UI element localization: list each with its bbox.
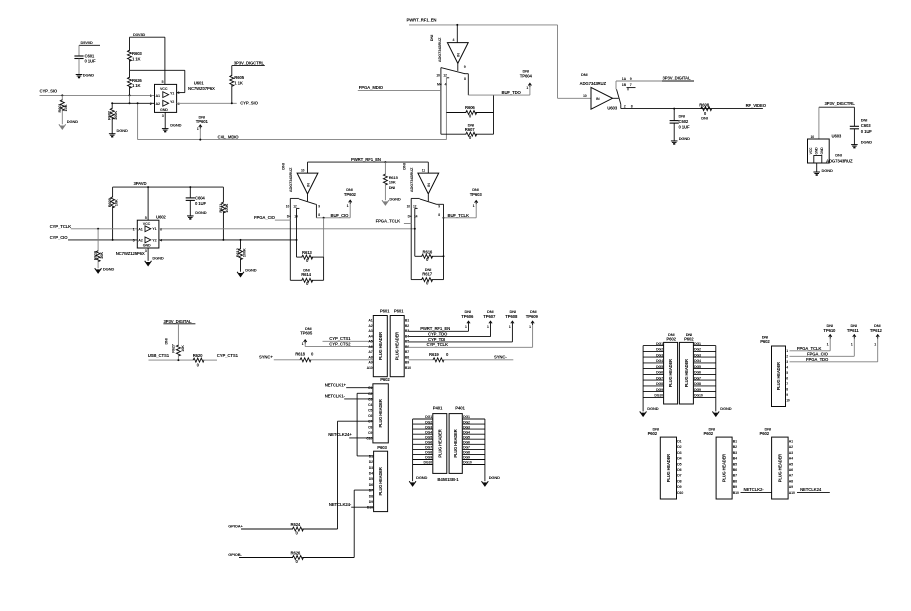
svg-text:A1: A1 bbox=[368, 319, 372, 323]
svg-text:4: 4 bbox=[453, 38, 455, 42]
svg-text:A10: A10 bbox=[789, 491, 795, 495]
svg-text:TP612: TP612 bbox=[870, 328, 883, 333]
svg-text:2: 2 bbox=[786, 355, 788, 359]
wire Y1 pullup loop bbox=[130, 70, 185, 92]
svg-text:D3: D3 bbox=[677, 451, 681, 455]
svg-text:B1: B1 bbox=[405, 319, 409, 323]
svg-text:D1: D1 bbox=[369, 454, 373, 458]
svg-text:DGND: DGND bbox=[647, 406, 658, 411]
svg-text:DGND: DGND bbox=[822, 168, 833, 173]
svg-text:0 1UF: 0 1UF bbox=[85, 59, 96, 64]
resistor R613 bbox=[297, 250, 324, 263]
node FPGA_MDIO bbox=[359, 85, 384, 90]
svg-text:DG5: DG5 bbox=[694, 365, 701, 369]
power rail D3V3D (R603) bbox=[130, 32, 165, 37]
wire FPGA_CIO (P602) bbox=[790, 351, 855, 356]
wire FPGA_TCLK bbox=[404, 223, 411, 225]
svg-text:VCC: VCC bbox=[809, 147, 813, 154]
test point TP607 bbox=[483, 309, 496, 336]
svg-text:0: 0 bbox=[469, 135, 472, 140]
wire switch pin A (TDO) bbox=[436, 68, 442, 135]
svg-text:10: 10 bbox=[301, 169, 305, 173]
svg-text:DNI: DNI bbox=[835, 153, 841, 158]
svg-text:B1: B1 bbox=[733, 439, 737, 443]
svg-text:M4: M4 bbox=[437, 82, 442, 86]
svg-text:1: 1 bbox=[529, 325, 531, 329]
svg-text:B8: B8 bbox=[405, 355, 409, 359]
wire CYP_TDO (P601) bbox=[409, 332, 491, 337]
svg-text:R627: R627 bbox=[172, 344, 176, 353]
resistor R607 bbox=[441, 122, 494, 140]
svg-text:DG6: DG6 bbox=[463, 441, 470, 445]
svg-text:DG6: DG6 bbox=[694, 371, 701, 375]
svg-text:8: 8 bbox=[318, 213, 320, 217]
svg-text:ADG7343RUZ: ADG7343RUZ bbox=[580, 81, 607, 86]
svg-text:8: 8 bbox=[786, 388, 788, 392]
ground DGND (U603 power) bbox=[813, 168, 833, 175]
connector P602 (bottom 3) bbox=[760, 426, 789, 499]
svg-text:DG8: DG8 bbox=[694, 382, 701, 386]
svg-text:FPGA_TCLK: FPGA_TCLK bbox=[376, 218, 401, 223]
wire ctrl drop (TDO) bbox=[453, 25, 458, 43]
svg-text:C1: C1 bbox=[368, 386, 372, 390]
ground DGND (R610) bbox=[95, 266, 115, 273]
svg-text:10: 10 bbox=[811, 135, 815, 139]
svg-text:P602: P602 bbox=[760, 431, 770, 436]
svg-text:D1: D1 bbox=[677, 439, 681, 443]
svg-text:DGND: DGND bbox=[152, 256, 163, 261]
test point TP601 bbox=[196, 115, 209, 140]
node 3P3V_DIGITAL (R627) bbox=[163, 319, 195, 324]
svg-text:D4: D4 bbox=[408, 214, 412, 218]
svg-text:D7: D7 bbox=[677, 474, 681, 478]
P602 pair right wires bbox=[693, 346, 715, 398]
svg-text:2: 2 bbox=[624, 105, 626, 109]
svg-text:DNI: DNI bbox=[165, 338, 169, 344]
wire C2 to D1 jumper bbox=[357, 393, 374, 456]
wire NETCLK1- bbox=[344, 398, 373, 400]
resistor R626 bbox=[128, 70, 143, 95]
svg-text:DNI: DNI bbox=[401, 163, 406, 169]
svg-text:PLUG HEADER: PLUG HEADER bbox=[777, 454, 782, 482]
svg-text:P602: P602 bbox=[684, 337, 694, 342]
P602 bottom3 pin labels bbox=[789, 439, 795, 495]
wire NETCLK1+ bbox=[346, 387, 373, 389]
svg-text:4: 4 bbox=[445, 82, 447, 86]
svg-text:A5: A5 bbox=[789, 462, 793, 466]
wire C7 to R624 bbox=[338, 421, 373, 529]
wire SYNC- (R619) bbox=[409, 352, 514, 362]
connector P602 pair left bbox=[664, 332, 678, 404]
wire NETCLK24+ bbox=[349, 437, 373, 439]
svg-text:4: 4 bbox=[160, 239, 163, 243]
P602 pair left labels bbox=[654, 342, 663, 398]
svg-text:D2: D2 bbox=[369, 460, 373, 464]
ground DGND (R612) bbox=[237, 267, 257, 276]
svg-text:1: 1 bbox=[133, 227, 135, 231]
svg-text:R614: R614 bbox=[301, 272, 311, 277]
svg-text:10K: 10K bbox=[181, 345, 185, 352]
svg-text:5: 5 bbox=[145, 216, 147, 220]
svg-text:TP611: TP611 bbox=[847, 328, 859, 333]
svg-text:3P3V_DIGITAL: 3P3V_DIGITAL bbox=[164, 319, 192, 324]
svg-text:DGND: DGND bbox=[195, 210, 206, 215]
wire ground bus right (P602 pair) bbox=[715, 346, 717, 412]
ground DGND (R601) bbox=[59, 119, 78, 129]
svg-text:C604: C604 bbox=[195, 196, 205, 201]
svg-text:C602: C602 bbox=[679, 119, 689, 124]
P602 pin labels C bbox=[366, 386, 372, 440]
svg-text:RF_VIDEO: RF_VIDEO bbox=[746, 103, 767, 108]
wire BUF_TCLK bbox=[444, 213, 477, 218]
svg-text:1: 1 bbox=[509, 325, 511, 329]
wire A2 bbox=[111, 102, 154, 104]
svg-text:DG2: DG2 bbox=[463, 420, 470, 424]
svg-text:VCC: VCC bbox=[160, 87, 168, 91]
wire SYNC+ bbox=[274, 352, 374, 362]
svg-text:DG3: DG3 bbox=[463, 425, 470, 429]
svg-text:D9: D9 bbox=[369, 500, 373, 504]
power rail 3PAVD bbox=[113, 181, 224, 188]
wire CYP_SIO out bbox=[177, 102, 237, 104]
svg-text:A7: A7 bbox=[368, 350, 372, 354]
resistor R617 bbox=[411, 267, 443, 286]
svg-text:4: 4 bbox=[786, 366, 788, 370]
resistor R614 bbox=[290, 257, 323, 286]
svg-text:A3: A3 bbox=[368, 329, 372, 333]
ground DGND (U602) bbox=[145, 256, 164, 266]
resistor R608 bbox=[699, 102, 711, 120]
svg-text:PLUG HEADER: PLUG HEADER bbox=[722, 454, 727, 482]
svg-text:0: 0 bbox=[197, 362, 200, 367]
node 3P3V_DIGCTRL (U603) bbox=[819, 101, 855, 107]
test point TP606 bbox=[461, 309, 474, 331]
test point TP609 bbox=[526, 309, 539, 347]
svg-text:NC7WZ125P6X: NC7WZ125P6X bbox=[116, 251, 145, 256]
svg-text:DG2: DG2 bbox=[656, 348, 663, 352]
svg-text:ADG7343RUZ: ADG7343RUZ bbox=[288, 167, 293, 192]
svg-text:R613: R613 bbox=[302, 250, 312, 255]
wire U601 VCC pin 5 bbox=[162, 37, 165, 84]
wire switch pin B (TCLK) bbox=[413, 204, 418, 256]
wire PWRT_RF1_EN rail bbox=[308, 161, 429, 163]
node USB_CTS1 bbox=[148, 353, 170, 358]
svg-text:TP606: TP606 bbox=[461, 314, 474, 319]
svg-text:CYP_TCLK: CYP_TCLK bbox=[427, 342, 450, 347]
svg-text:DNI: DNI bbox=[389, 185, 395, 190]
node CYP_TCLK bbox=[50, 224, 73, 229]
svg-text:PLUG HEADER: PLUG HEADER bbox=[776, 362, 781, 390]
svg-text:GPIOB-: GPIOB- bbox=[228, 552, 242, 557]
svg-text:DGND: DGND bbox=[103, 266, 114, 271]
svg-text:D4: D4 bbox=[677, 457, 681, 461]
wire switch contact (CIO) bbox=[316, 204, 321, 218]
svg-text:FPGA_TDO: FPGA_TDO bbox=[806, 357, 829, 362]
svg-text:D10: D10 bbox=[677, 491, 683, 495]
svg-text:6: 6 bbox=[160, 227, 162, 231]
svg-text:8: 8 bbox=[464, 77, 466, 81]
svg-text:TP604: TP604 bbox=[520, 73, 533, 78]
svg-text:CYP_SIO: CYP_SIO bbox=[240, 101, 258, 106]
wire R606-R607 join bbox=[493, 95, 495, 134]
svg-text:C603: C603 bbox=[861, 123, 871, 128]
svg-text:D4: D4 bbox=[369, 472, 373, 476]
test point TP602 bbox=[344, 187, 357, 218]
wire switch pin B (TDO) bbox=[443, 73, 449, 139]
svg-text:GND: GND bbox=[815, 147, 819, 155]
svg-text:0: 0 bbox=[311, 352, 314, 357]
svg-text:10: 10 bbox=[786, 399, 790, 403]
svg-text:CYP_CTS1: CYP_CTS1 bbox=[217, 353, 239, 358]
svg-text:A2: A2 bbox=[156, 102, 161, 106]
node SYNC+ bbox=[259, 355, 273, 360]
svg-text:1 1K: 1 1K bbox=[132, 83, 142, 88]
svg-text:PLUG HEADER: PLUG HEADER bbox=[378, 467, 383, 495]
node NETCLK1+ bbox=[325, 383, 347, 388]
svg-text:DG9: DG9 bbox=[425, 456, 432, 460]
ground DGND (C603) bbox=[851, 140, 872, 148]
svg-text:C8: C8 bbox=[368, 425, 372, 429]
svg-text:DG7: DG7 bbox=[425, 446, 432, 450]
op-amp control buffer (TDO) bbox=[447, 43, 468, 64]
wire NETCLK2- bbox=[741, 487, 772, 492]
wire CYP_CTS1 bbox=[323, 336, 374, 341]
svg-text:P603: P603 bbox=[377, 445, 387, 450]
svg-text:C3: C3 bbox=[368, 397, 372, 401]
wire CYP_CIO out bbox=[159, 239, 298, 241]
svg-text:DGND: DGND bbox=[416, 475, 427, 480]
svg-text:A9: A9 bbox=[789, 485, 793, 489]
svg-text:VCC: VCC bbox=[143, 222, 151, 226]
svg-text:DGND: DGND bbox=[67, 119, 78, 124]
svg-text:A1: A1 bbox=[156, 94, 161, 98]
svg-text:DG1: DG1 bbox=[656, 342, 663, 346]
svg-text:SYNC+: SYNC+ bbox=[259, 355, 273, 360]
P602 bottom2 pin labels bbox=[733, 439, 739, 495]
svg-text:P601: P601 bbox=[394, 308, 404, 313]
svg-text:B9: B9 bbox=[733, 485, 737, 489]
wire USB_CTS1 bbox=[149, 359, 194, 361]
svg-text:100K: 100K bbox=[113, 111, 118, 120]
svg-text:Y1: Y1 bbox=[170, 91, 174, 95]
svg-text:C7: C7 bbox=[368, 420, 372, 424]
P602 bottom1 pin labels bbox=[677, 439, 683, 495]
svg-text:9: 9 bbox=[786, 393, 788, 397]
wire FPGA_TCLK (P602) bbox=[790, 346, 831, 351]
resistor R611 bbox=[218, 187, 229, 240]
svg-text:DG8: DG8 bbox=[425, 451, 432, 455]
resistor R606 bbox=[446, 105, 493, 119]
node CXL_MDIO bbox=[218, 134, 240, 139]
node FPGA_CIO bbox=[254, 215, 276, 220]
svg-text:P401: P401 bbox=[433, 405, 443, 410]
svg-text:DG10: DG10 bbox=[654, 394, 663, 398]
svg-text:NETCLK24-: NETCLK24- bbox=[329, 502, 352, 507]
svg-text:7: 7 bbox=[786, 382, 788, 386]
U603 power part label bbox=[826, 153, 853, 164]
svg-text:1: 1 bbox=[302, 342, 304, 346]
svg-text:8: 8 bbox=[631, 104, 633, 108]
svg-text:ADG7343RUZ: ADG7343RUZ bbox=[409, 167, 414, 192]
svg-text:2: 2 bbox=[150, 102, 152, 106]
svg-text:A2: A2 bbox=[138, 239, 143, 243]
wire U602 VCC pin bbox=[145, 187, 148, 220]
connector P601 right bbox=[390, 308, 404, 376]
svg-text:DG10: DG10 bbox=[694, 394, 703, 398]
svg-text:B4501SB-1: B4501SB-1 bbox=[437, 477, 459, 482]
svg-text:TP603: TP603 bbox=[470, 192, 483, 197]
node GPIOA+ bbox=[228, 524, 243, 529]
svg-text:P601: P601 bbox=[380, 308, 390, 313]
svg-text:R608: R608 bbox=[699, 102, 709, 107]
svg-text:GND: GND bbox=[160, 108, 168, 112]
ground DGND (P401 right) bbox=[482, 475, 501, 486]
svg-text:DGND: DGND bbox=[83, 72, 94, 77]
svg-text:1: 1 bbox=[150, 94, 152, 98]
wire CXL_MDIO bbox=[137, 102, 447, 140]
ground DGND (U601) bbox=[162, 123, 182, 132]
svg-text:9: 9 bbox=[630, 77, 632, 81]
svg-text:R606: R606 bbox=[465, 105, 475, 110]
svg-text:D5V0D: D5V0D bbox=[81, 40, 93, 45]
svg-text:PLUG HEADER: PLUG HEADER bbox=[378, 332, 383, 360]
svg-text:DG9: DG9 bbox=[694, 388, 701, 392]
svg-text:DNI: DNI bbox=[429, 35, 434, 41]
svg-text:PLUG HEADER: PLUG HEADER bbox=[437, 429, 442, 457]
svg-text:1: 1 bbox=[526, 86, 528, 90]
svg-text:A8: A8 bbox=[368, 355, 372, 359]
svg-text:DG6: DG6 bbox=[425, 441, 432, 445]
svg-text:NETCLK1+: NETCLK1+ bbox=[325, 383, 347, 388]
op-amp control buffer (TCLK) bbox=[418, 162, 439, 194]
switch blade (TDO) bbox=[441, 65, 468, 74]
op-amp U601 buffer box bbox=[150, 84, 181, 112]
connector P602 bbox=[373, 377, 390, 443]
svg-text:CYP_CTS2: CYP_CTS2 bbox=[329, 342, 351, 347]
P401 part number bbox=[437, 477, 459, 482]
node NETCLK24+ bbox=[328, 432, 352, 437]
ground DGND (C601) bbox=[76, 72, 95, 77]
svg-text:DG1: DG1 bbox=[425, 415, 432, 419]
svg-text:FPGA_CIO: FPGA_CIO bbox=[254, 215, 276, 220]
svg-text:P602: P602 bbox=[666, 337, 676, 342]
svg-text:DG8: DG8 bbox=[656, 382, 663, 386]
svg-text:USB_CTS1: USB_CTS1 bbox=[148, 353, 170, 358]
resistor R616 bbox=[415, 249, 444, 262]
op-amp U602 buffer box bbox=[133, 220, 163, 248]
svg-text:B10: B10 bbox=[405, 366, 411, 370]
connector P602 (bottom 2) bbox=[704, 426, 733, 499]
svg-text:PWRT_RF1_EN: PWRT_RF1_EN bbox=[351, 157, 381, 162]
node CYP_CIO bbox=[50, 235, 69, 240]
svg-text:ADG7343RUZ: ADG7343RUZ bbox=[826, 159, 853, 164]
svg-text:DG4: DG4 bbox=[463, 430, 470, 434]
svg-text:GND: GND bbox=[820, 147, 824, 155]
svg-text:C10: C10 bbox=[366, 436, 372, 440]
svg-text:DGND: DGND bbox=[489, 475, 500, 480]
svg-text:9: 9 bbox=[318, 205, 320, 209]
svg-text:DG3: DG3 bbox=[425, 425, 432, 429]
svg-text:PLUG HEADER: PLUG HEADER bbox=[666, 454, 671, 482]
svg-text:DG10: DG10 bbox=[423, 461, 432, 465]
ground DGND (R602) bbox=[109, 128, 128, 137]
connector P601 left bbox=[373, 308, 390, 376]
svg-text:C6: C6 bbox=[368, 414, 372, 418]
svg-text:0 1UF: 0 1UF bbox=[195, 201, 206, 206]
wire BUF_CIO bbox=[316, 213, 350, 219]
svg-text:3: 3 bbox=[786, 360, 788, 364]
P601 pin labels A bbox=[367, 319, 373, 370]
svg-text:A10: A10 bbox=[367, 366, 373, 370]
wire CYP_CTS2 bbox=[305, 342, 373, 347]
wire switch contact (TCLK) bbox=[437, 204, 445, 279]
svg-text:R602: R602 bbox=[107, 110, 112, 120]
connector P401 left bbox=[433, 405, 447, 473]
resistor R601 bbox=[57, 95, 68, 124]
node RF_VIDEO bbox=[746, 103, 767, 108]
svg-text:DG7: DG7 bbox=[463, 446, 470, 450]
svg-text:DNI: DNI bbox=[701, 116, 707, 121]
switch labels (CIO) bbox=[281, 163, 294, 192]
svg-text:DG6: DG6 bbox=[656, 371, 663, 375]
switch blade (TCLK) bbox=[411, 194, 436, 204]
svg-text:CYP_CIO: CYP_CIO bbox=[50, 235, 69, 240]
svg-text:5: 5 bbox=[786, 371, 788, 375]
svg-text:0: 0 bbox=[446, 352, 449, 357]
U601 reference label bbox=[188, 80, 215, 90]
svg-text:R611: R611 bbox=[218, 203, 223, 213]
svg-text:ADG7343RUZ: ADG7343RUZ bbox=[437, 37, 442, 62]
svg-text:DGND: DGND bbox=[679, 136, 690, 141]
svg-text:B8: B8 bbox=[733, 479, 737, 483]
svg-text:TP605: TP605 bbox=[300, 331, 313, 336]
svg-text:PLUG HEADER: PLUG HEADER bbox=[684, 359, 689, 387]
svg-text:BUF_CIO: BUF_CIO bbox=[331, 213, 350, 218]
svg-text:FPGA_CIO: FPGA_CIO bbox=[807, 351, 829, 356]
svg-text:3: 3 bbox=[145, 249, 147, 253]
svg-text:R617: R617 bbox=[422, 271, 432, 276]
test point TP603 bbox=[470, 187, 483, 218]
test point TP612 bbox=[870, 323, 883, 362]
svg-text:FPGA_TCLK: FPGA_TCLK bbox=[797, 346, 822, 351]
node FPGA_TCLK bbox=[376, 218, 401, 223]
svg-text:GPIOA+: GPIOA+ bbox=[228, 524, 243, 529]
wire CYP_TCLK in bbox=[71, 228, 138, 230]
P401 right pin labels bbox=[463, 415, 472, 465]
P601 pin labels B bbox=[405, 319, 411, 370]
svg-text:9: 9 bbox=[464, 65, 466, 69]
node NETCLK1- bbox=[325, 394, 346, 399]
connector P602 pair right bbox=[679, 332, 694, 404]
wire CYP_TCLK out bbox=[159, 228, 416, 230]
svg-text:B9: B9 bbox=[405, 361, 409, 365]
test point TP604 bbox=[520, 69, 533, 96]
node PWRT_RF1_EN (row2) bbox=[351, 157, 381, 162]
svg-text:U601: U601 bbox=[194, 80, 204, 85]
svg-text:1: 1 bbox=[487, 325, 489, 329]
svg-text:CXL_MDIO: CXL_MDIO bbox=[218, 134, 240, 139]
resistor R626 (bottom) bbox=[239, 551, 354, 565]
svg-text:D8: D8 bbox=[369, 494, 373, 498]
svg-text:CYP_SIO: CYP_SIO bbox=[40, 89, 58, 94]
wire ground bus left (P602 pair) bbox=[642, 346, 644, 412]
wire CYP_CIO in bbox=[68, 239, 137, 241]
svg-text:P602: P602 bbox=[380, 377, 390, 382]
svg-text:SYNC-: SYNC- bbox=[494, 355, 507, 360]
node NETCLK24- bbox=[329, 502, 352, 507]
capacitor C601 bbox=[74, 54, 96, 75]
svg-text:D3V3D: D3V3D bbox=[133, 32, 145, 37]
